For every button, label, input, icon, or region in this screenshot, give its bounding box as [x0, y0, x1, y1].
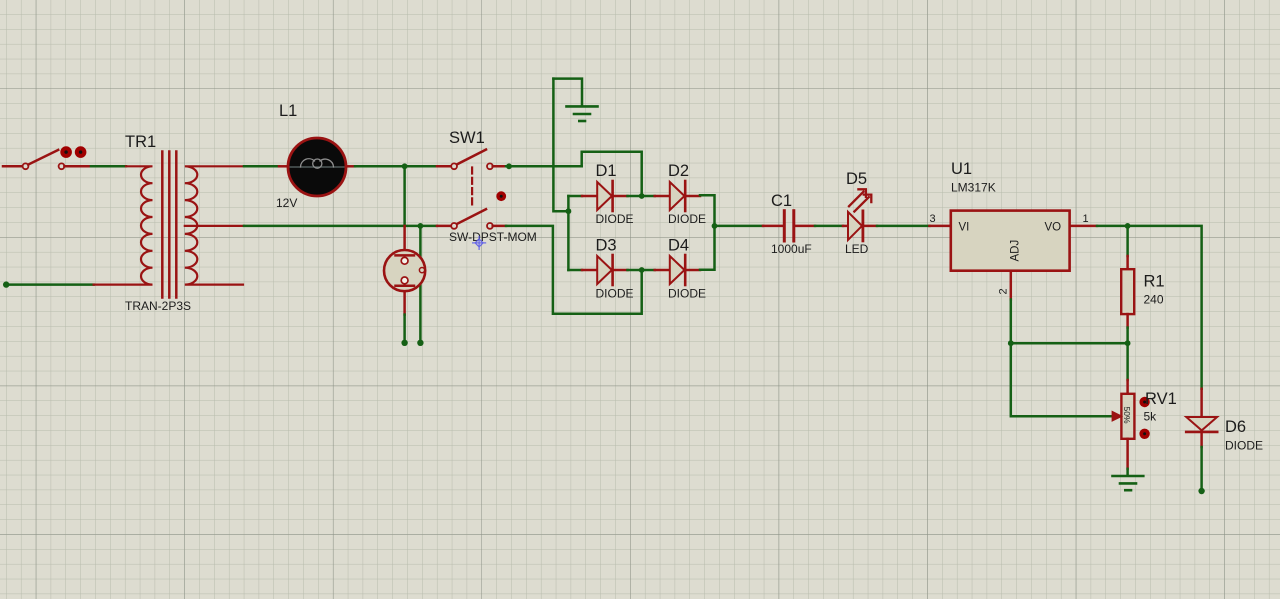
- wire (bypass up-over to D1 cathode node): [582, 152, 642, 196]
- resistor R1: [1121, 256, 1164, 328]
- wire (D6 cathode to end dot): [1198, 447, 1204, 494]
- svg-text:1000uF: 1000uF: [771, 242, 812, 256]
- svg-text:240: 240: [1144, 293, 1164, 307]
- svg-text:50%: 50%: [1122, 407, 1132, 424]
- svg-text:LM317K: LM317K: [951, 181, 996, 195]
- svg-text:C1: C1: [771, 192, 792, 210]
- wire (connector bottom to end dot): [401, 315, 407, 346]
- diode D2: [655, 162, 706, 226]
- svg-text:D1: D1: [596, 162, 617, 180]
- svg-text:LED: LED: [845, 242, 869, 256]
- switch SW1: [437, 129, 537, 244]
- svg-text:DIODE: DIODE: [1225, 439, 1263, 453]
- wire (D5 to U1 VI): [877, 225, 930, 228]
- svg-text:TR1: TR1: [125, 133, 156, 151]
- wire (TR1 tap to SW1 lower pole, with junction): [244, 223, 437, 229]
- wire (node down to R1): [1126, 226, 1129, 256]
- svg-text:VO: VO: [1045, 222, 1062, 234]
- wire (to D3 anode): [568, 269, 582, 272]
- diode D6: [1186, 389, 1263, 453]
- svg-text:TRAN-2P3S: TRAN-2P3S: [125, 299, 191, 313]
- wire (VO to R1 node): [1097, 223, 1131, 229]
- wire (ADJ junction down and right to RV1 wiper): [1011, 343, 1113, 416]
- wire (ADJ row horizontal): [1011, 342, 1128, 345]
- wire (junction down to D3 anode row): [567, 211, 570, 270]
- node (D1/D3 anode junction): [566, 208, 572, 214]
- transformer TR1: [94, 133, 244, 313]
- wire + node (D1 cathode junction): [628, 193, 655, 199]
- lamp L1: [276, 102, 355, 210]
- svg-text:12V: 12V: [276, 196, 297, 210]
- svg-text:2: 2: [998, 288, 1010, 294]
- wire (R1 node to D6 branch): [1128, 226, 1202, 389]
- wire (D4 cathode up to output node): [700, 226, 715, 270]
- svg-text:D2: D2: [668, 162, 689, 180]
- origin marker (blue): [473, 236, 486, 249]
- diode D1: [582, 162, 634, 226]
- svg-text:RV1: RV1: [1145, 390, 1177, 408]
- svg-text:ADJ: ADJ: [1010, 240, 1022, 262]
- wire (ADJ pin down, junction): [1008, 300, 1014, 347]
- wire (junction down to connector pin): [403, 166, 406, 226]
- svg-text:5k: 5k: [1144, 410, 1158, 424]
- svg-text:SW1: SW1: [449, 129, 485, 147]
- svg-text:D5: D5: [846, 170, 867, 188]
- svg-text:1: 1: [1083, 213, 1089, 225]
- svg-text:D3: D3: [596, 237, 617, 255]
- wire (bridge output to C1): [715, 225, 764, 228]
- svg-text:DIODE: DIODE: [596, 212, 634, 226]
- wire + node (D3 cathode junction): [628, 267, 655, 273]
- wire (C1 to D5): [815, 225, 843, 228]
- diode D4: [655, 237, 706, 301]
- svg-text:U1: U1: [951, 160, 972, 178]
- switch SW (unnamed input toggle): [3, 146, 91, 169]
- potentiometer RV1: [1112, 380, 1177, 469]
- led D5: [843, 170, 877, 256]
- wire (junction down to end dot): [417, 226, 423, 346]
- wire (R1 junction down to RV1): [1126, 343, 1129, 380]
- wire (lamp to SW1, with junction): [355, 163, 437, 169]
- wire (SW1 bottom output, down-around to D3/D4 node): [506, 226, 642, 314]
- wire (TR1 secondary top to lamp): [244, 165, 279, 168]
- ground (under RV1): [1113, 469, 1144, 490]
- svg-text:3: 3: [930, 213, 936, 225]
- svg-text:D6: D6: [1225, 418, 1246, 436]
- diode D3: [582, 237, 634, 301]
- wire (SW1 top output, with junction dot): [506, 163, 582, 169]
- node (bridge DC output): [712, 223, 718, 229]
- svg-text:D4: D4: [668, 237, 689, 255]
- svg-text:L1: L1: [279, 102, 297, 120]
- wire (junction up to D1 anode row): [567, 196, 570, 211]
- svg-text:R1: R1: [1144, 273, 1165, 291]
- wire (ground branch vertical): [553, 79, 568, 212]
- connector (round DC socket): [384, 226, 425, 315]
- svg-text:DIODE: DIODE: [596, 287, 634, 301]
- wire (to D1 anode): [568, 195, 582, 198]
- wire (switch to TR1 primary): [91, 165, 126, 168]
- ground (top): [553, 79, 597, 121]
- regulator U1 LM317K: [930, 160, 1098, 300]
- svg-text:SW-DPST-MOM: SW-DPST-MOM: [449, 230, 537, 244]
- svg-text:DIODE: DIODE: [668, 212, 706, 226]
- capacitor C1: [763, 192, 815, 256]
- wire (R1 bottom to ADJ row, junction): [1125, 328, 1131, 347]
- svg-text:DIODE: DIODE: [668, 287, 706, 301]
- wire (bottom-left with end dot): [3, 281, 94, 287]
- svg-text:VI: VI: [959, 222, 970, 234]
- wire (D2 cathode down to output node): [700, 195, 715, 226]
